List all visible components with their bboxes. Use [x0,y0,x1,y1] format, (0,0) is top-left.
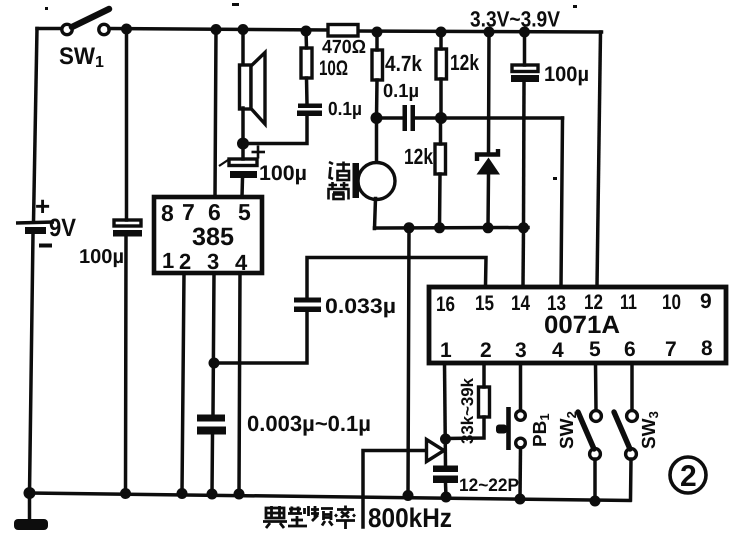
capacitor C3 0.1u zobel [297,99,362,120]
svg-text:4: 4 [552,339,564,362]
svg-text:100µ: 100µ [259,162,307,185]
wire mic to ground bus [375,199,376,229]
junction dot R2 rail [301,26,312,37]
junction dot mic node [371,112,383,124]
switch SW2 [557,363,601,507]
capacitor C4 0.1u coupling [403,105,416,131]
wire top rail left segment [37,27,62,31]
wire rail to R4 [439,32,443,49]
junction dot C8 ground [441,492,452,503]
scan speck upper left [45,7,48,10]
microphone BM [353,118,396,200]
wire top rail right segment [358,31,602,32]
scan speck top center [232,3,239,6]
wire rail to C5 [523,32,527,65]
svg-text:0071A: 0071A [544,311,620,339]
IC U1 386 [154,197,262,275]
wire bias node to R5 [439,118,443,144]
svg-text:15: 15 [475,292,494,315]
svg-text:8: 8 [701,337,713,360]
wire battery negative to ground rail [30,234,34,493]
svg-text:SW: SW [59,43,95,70]
wire R4 to bias node [439,79,443,118]
svg-text:4.7k: 4.7k [385,51,423,76]
junction dot bus R5 [434,222,445,233]
wire top rail to speaker [241,30,245,67]
wire C6 bottom to pin3 line [214,312,307,363]
svg-text:9: 9 [700,290,712,313]
microphone label huatong [329,162,351,200]
svg-text:2: 2 [480,339,492,362]
svg-text:33k~39k: 33k~39k [458,377,477,444]
junction dot R3 rail [372,27,383,38]
junction dot bus C5 [518,222,529,233]
wire battery to rail [34,29,38,223]
junction dot pin1 node [440,434,451,445]
wire U2 pin1 down [445,363,446,466]
battery GB 9V [16,191,76,246]
wire C3 to speaker node [243,116,307,144]
svg-text:385: 385 [192,223,234,251]
svg-text:0.003µ~0.1µ: 0.003µ~0.1µ [247,411,371,436]
resistor R1 470ohm [322,25,366,59]
wire U2 pin2 to R6 [482,363,486,387]
junction dot bus x409 [404,222,415,233]
svg-text:16: 16 [436,293,455,316]
junction dot x409 ground rail [403,490,414,501]
svg-text:470Ω: 470Ω [322,37,366,58]
resistor R2 10ohm [301,48,348,80]
junction dot C6 to pin3 line [209,358,220,369]
speaker BL [240,53,266,125]
junction dot bias node [435,112,447,124]
junction dot pin6 rail [211,24,222,35]
svg-text:0.033µ: 0.033µ [325,295,396,318]
junction dot zener rail [484,27,495,38]
svg-text:+: + [35,191,50,221]
ground bus wire [375,226,529,230]
svg-text:1: 1 [440,339,452,362]
figure number 2 [670,457,706,493]
svg-text:10Ω: 10Ω [319,57,348,80]
piezo driver triangle [427,440,445,462]
wire top rail mid segment [109,29,328,31]
label dianxing pinlv [263,506,355,530]
wire R6 to pin1 node [446,417,485,439]
junction dot C1 ground rail [120,488,131,499]
wire U1 pin3 down [213,273,214,415]
wire triangle left branch [363,451,426,528]
capacitor C2 100u output coupling [219,146,307,186]
junction dot C1 top rail [121,24,132,35]
svg-text:8: 8 [161,200,174,226]
resistor R5 12k lower [404,144,446,174]
junction dot pin3 ground [207,489,218,500]
junction dot speaker output node [237,138,249,150]
svg-text:6: 6 [208,199,221,225]
svg-text:3: 3 [515,339,527,362]
svg-text:100µ: 100µ [544,63,589,86]
wire U1 pin2 to ground rail [182,273,184,493]
wire rail to zener cathode [487,32,491,153]
svg-text:0.1µ: 0.1µ [328,99,362,120]
wire C1 branch lower [124,236,128,494]
wire bus to U2 pin14 [521,228,525,286]
junction dot ground rail left [24,487,36,499]
svg-text:11: 11 [620,291,637,314]
junction dot C5 rail [519,27,530,38]
wire pin13 riser [561,118,563,286]
zener diode VD [477,149,501,175]
svg-text:1: 1 [95,54,104,71]
svg-text:3: 3 [207,249,219,274]
svg-text:12~22P: 12~22P [459,475,519,495]
wire speaker to output node [241,108,245,144]
resistor R6 33k~39k [458,377,490,444]
svg-text:7: 7 [182,199,195,225]
svg-text:100µ: 100µ [79,246,124,268]
wire C7 to ground rail [210,434,214,494]
switch SW1 [59,9,109,71]
scan speck mid right [553,177,557,180]
svg-text:2: 2 [680,460,697,493]
IC U2 0071A [429,287,726,363]
wire R5 to ground bus [438,174,442,228]
push button PB1 [496,363,552,505]
wire rail to R3 [375,32,379,50]
svg-text:3.3V~3.9V: 3.3V~3.9V [470,7,560,32]
capacitor C1 100u supply filter [79,220,142,268]
junction dot pin2 ground [177,488,188,499]
wire C1 branch upper [125,29,129,220]
wire C5 to ground bus [522,82,526,228]
svg-text:9V: 9V [49,214,76,242]
wire pin15 net horizontal [307,258,486,299]
svg-text:1: 1 [162,248,174,273]
svg-text:800kHz: 800kHz [368,503,452,533]
wire U1 pin4 to ground rail [239,273,240,494]
wire zener anode to ground bus [486,174,490,228]
resistor R4 12k upper [436,49,480,79]
wire pin12 riser from rail [597,32,601,286]
svg-text:5: 5 [238,199,251,225]
wire C4 to pin13 riser [415,116,563,120]
svg-text:12k: 12k [450,50,480,75]
svg-text:0.1µ: 0.1µ [383,81,419,102]
svg-text:4: 4 [235,250,248,275]
svg-text:6: 6 [624,338,636,361]
svg-text:10: 10 [662,291,681,314]
wire C2 to U1 pin5 [240,178,244,197]
switch SW3 [614,363,661,500]
svg-text:5: 5 [589,338,601,361]
capacitor C8 12~22P [433,466,519,496]
ground rail wire [30,493,631,501]
wire mic node to C4 [377,116,404,120]
svg-text:12k: 12k [404,144,434,169]
scan speck top right [573,5,577,8]
wire rail to R2 [304,31,308,48]
svg-text:7: 7 [665,338,677,361]
svg-text:2: 2 [179,249,191,274]
capacitor C6 0.033u [294,295,396,318]
wire speaker node to C2 [241,144,245,159]
wire bus to bottom rail [408,228,409,495]
wire R3 to mic node [375,80,379,118]
junction dot bus zener [483,222,494,233]
junction dot R4 rail [436,27,447,38]
wire U1 pin6 to top rail [215,30,216,198]
ground symbol [14,493,48,530]
wire C8 to ground rail [444,483,448,497]
junction dot pin4 ground [234,489,245,500]
resistor R3 4.7k [372,50,423,80]
junction dot speaker rail [238,24,249,35]
svg-text:14: 14 [511,292,530,315]
capacitor C5 100u rail bypass [511,63,589,86]
capacitor C7 0.003u~0.1u [197,411,371,436]
wire R2 to C3 [305,78,309,104]
